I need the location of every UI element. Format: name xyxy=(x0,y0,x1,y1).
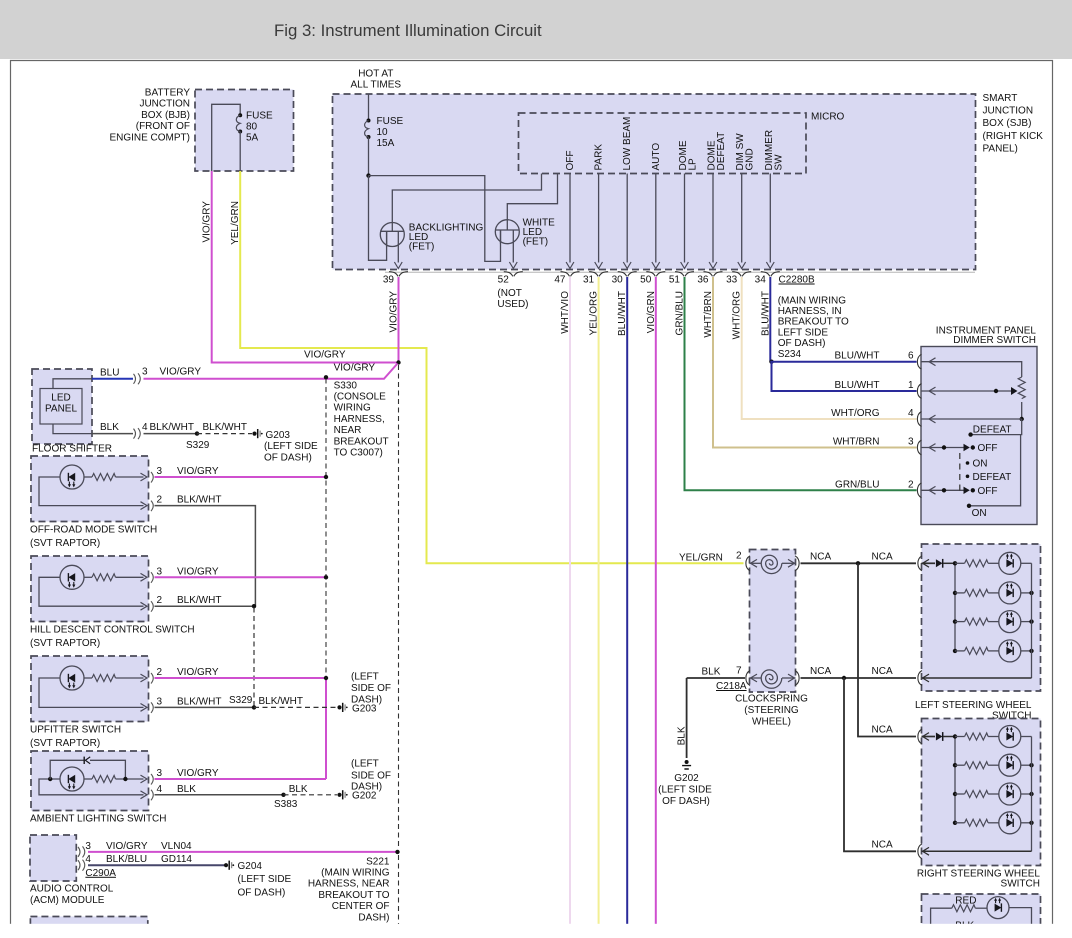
pin 51 xyxy=(675,272,694,277)
wire BLK xyxy=(92,433,133,435)
left steering wheel switch box xyxy=(922,544,1041,691)
svg-text:C218A: C218A xyxy=(716,681,747,692)
svg-text:GD114: GD114 xyxy=(161,854,192,865)
wire VIO/GRY floor shifter xyxy=(144,364,398,379)
svg-text:G204: G204 xyxy=(238,861,263,872)
svg-text:CLOCKSPRING: CLOCKSPRING xyxy=(735,694,808,705)
wire NCA to RSW input xyxy=(858,563,916,736)
LED row right steering wheel switch xyxy=(999,783,1021,805)
wire BLK ambient to S383 xyxy=(155,794,284,796)
wire internal hill descent control switch xyxy=(39,577,144,606)
svg-text:YEL/ORG: YEL/ORG xyxy=(589,291,600,336)
svg-text:SWITCH: SWITCH xyxy=(1001,879,1040,890)
svg-text:NCA: NCA xyxy=(872,839,893,850)
svg-text:S330: S330 xyxy=(334,380,358,391)
svg-text:BREAKOUT: BREAKOUT xyxy=(334,436,389,447)
svg-text:7: 7 xyxy=(736,666,742,677)
svg-text:C290A: C290A xyxy=(85,868,116,879)
connector clockspring pin7 xyxy=(746,671,750,686)
svg-text:(ACM) MODULE: (ACM) MODULE xyxy=(30,895,105,906)
bottom white clip strip xyxy=(0,924,1072,938)
svg-text:(STEERING: (STEERING xyxy=(744,705,799,716)
resistor row left steering wheel switch xyxy=(955,592,965,594)
off-road mode switch box xyxy=(31,456,149,522)
svg-text:WHEEL): WHEEL) xyxy=(752,716,791,727)
node S329 second xyxy=(252,705,256,709)
LED PANEL inner box xyxy=(40,389,82,425)
svg-text:NCA: NCA xyxy=(810,666,831,677)
svg-text:HARNESS,: HARNESS, xyxy=(334,414,385,425)
svg-text:C2280B: C2280B xyxy=(779,275,815,286)
wire BLK down to G202 xyxy=(686,678,688,758)
svg-text:DEFEAT: DEFEAT xyxy=(716,132,727,171)
wire BLK/WHT off-road xyxy=(155,506,256,607)
audio control (ACM) module box xyxy=(30,835,76,881)
svg-text:33: 33 xyxy=(726,275,738,286)
output row left steering wheel switch xyxy=(922,677,1032,679)
svg-text:FUSE: FUSE xyxy=(246,111,273,122)
svg-text:15A: 15A xyxy=(377,138,395,149)
svg-text:UPFITTER SWITCH: UPFITTER SWITCH xyxy=(30,725,121,736)
svg-text:(NOT: (NOT xyxy=(497,288,521,299)
LED upfitter switch xyxy=(60,666,84,690)
svg-text:(RIGHT KICK: (RIGHT KICK xyxy=(983,131,1044,142)
wire right rail to ON xyxy=(969,435,1021,506)
connector C2280B strip xyxy=(385,271,975,273)
svg-text:3: 3 xyxy=(142,367,148,378)
svg-text:OFF-ROAD MODE SWITCH: OFF-ROAD MODE SWITCH xyxy=(30,525,157,536)
svg-text:G203: G203 xyxy=(266,430,291,441)
svg-text:VIO/GRY: VIO/GRY xyxy=(304,350,346,361)
svg-text:BLK/WHT: BLK/WHT xyxy=(177,696,221,707)
LED row left steering wheel switch xyxy=(999,640,1021,662)
pin 36 xyxy=(704,272,723,277)
svg-text:WHT/ORG: WHT/ORG xyxy=(732,291,743,340)
wire YEL/GRN from BJB xyxy=(240,171,743,563)
svg-text:DEFEAT: DEFEAT xyxy=(973,472,1012,483)
svg-text:3: 3 xyxy=(908,437,914,448)
svg-text:3: 3 xyxy=(85,841,91,852)
svg-text:VIO/GRY: VIO/GRY xyxy=(177,566,219,577)
svg-text:HARNESS, NEAR: HARNESS, NEAR xyxy=(308,879,390,890)
svg-text:S329: S329 xyxy=(229,695,253,706)
LED row left steering wheel switch xyxy=(999,552,1021,574)
svg-text:LP: LP xyxy=(688,158,699,171)
diode left steering wheel switch xyxy=(936,559,943,567)
svg-text:SMART: SMART xyxy=(983,93,1018,104)
wire to DEFEAT contact xyxy=(971,419,1022,435)
battery junction box (BJB) xyxy=(195,90,294,172)
wire gate of backlighting FET xyxy=(392,174,541,232)
svg-text:LOW BEAM: LOW BEAM xyxy=(622,117,633,171)
svg-text:SIDE OF: SIDE OF xyxy=(351,683,391,694)
connector pins ambient xyxy=(141,775,148,783)
svg-text:2: 2 xyxy=(908,479,914,490)
pin 52 xyxy=(504,272,523,277)
svg-text:WHT/BRN: WHT/BRN xyxy=(703,291,714,338)
svg-text:3: 3 xyxy=(157,566,163,577)
transistor Q2 white LED FET xyxy=(495,220,519,244)
LED off-road mode switch xyxy=(60,465,84,489)
connector pin dimmer xyxy=(917,384,921,399)
svg-text:4: 4 xyxy=(157,784,163,795)
svg-text:34: 34 xyxy=(755,275,767,286)
svg-text:BLU/WHT: BLU/WHT xyxy=(835,380,880,391)
svg-text:BLK/WHT: BLK/WHT xyxy=(150,422,194,433)
ambient lighting switch box xyxy=(31,751,149,811)
wire BLK/WHT to S329 xyxy=(144,433,198,435)
svg-text:(LEFT SIDE: (LEFT SIDE xyxy=(658,785,712,796)
svg-text:VIO/GRY: VIO/GRY xyxy=(177,667,219,678)
LED row right steering wheel switch xyxy=(999,812,1021,834)
svg-text:OF DASH): OF DASH) xyxy=(662,796,710,807)
svg-text:BLK: BLK xyxy=(100,422,119,433)
wire VIO/GRY ambient xyxy=(155,778,327,780)
wire WHT/BRN pin36 xyxy=(713,277,917,448)
svg-text:CENTER OF: CENTER OF xyxy=(332,901,390,912)
svg-text:LEFT STEERING WHEEL: LEFT STEERING WHEEL xyxy=(915,700,1032,711)
svg-text:BATTERY: BATTERY xyxy=(145,88,191,99)
svg-text:VIO/GRN: VIO/GRN xyxy=(646,291,657,333)
wire BLK/WHT upfitter xyxy=(155,706,255,708)
resistor hill descent control switch xyxy=(92,574,116,581)
connector clockspring pin2 xyxy=(746,556,750,571)
node S221 xyxy=(395,850,399,854)
ground G203 second xyxy=(337,705,341,709)
svg-text:BLU: BLU xyxy=(100,368,119,379)
LED hill descent control switch xyxy=(60,565,84,589)
resistor upfitter switch xyxy=(92,675,116,682)
svg-text:31: 31 xyxy=(583,275,595,286)
pin 50 xyxy=(646,272,665,277)
resistor partial xyxy=(952,905,976,912)
wire into fuse 10 xyxy=(368,94,370,121)
dashed BLK to G202 xyxy=(284,794,338,796)
diode right steering wheel switch xyxy=(936,733,943,741)
svg-text:PANEL): PANEL) xyxy=(983,143,1018,154)
LED row right steering wheel switch xyxy=(999,726,1021,748)
node NCA junction 1 xyxy=(856,561,860,565)
svg-text:LEFT SIDE: LEFT SIDE xyxy=(778,327,829,338)
node S330 main junction xyxy=(396,360,400,364)
svg-text:OFF: OFF xyxy=(565,151,576,171)
svg-text:HOT AT: HOT AT xyxy=(358,69,393,80)
svg-text:ALL TIMES: ALL TIMES xyxy=(351,80,402,91)
ground G202 clockspring xyxy=(685,760,689,764)
resistor row left steering wheel switch xyxy=(955,562,965,564)
svg-text:(LEFT: (LEFT xyxy=(351,671,379,682)
svg-text:BOX (SJB): BOX (SJB) xyxy=(983,118,1032,129)
svg-text:VIO/GRY: VIO/GRY xyxy=(177,466,219,477)
dashed switch link xyxy=(959,453,961,492)
connector pin dimmer xyxy=(917,412,921,427)
wire BLU/WHT pin30 xyxy=(626,277,628,938)
connector pin dimmer xyxy=(917,354,921,369)
svg-text:SIDE OF: SIDE OF xyxy=(351,770,391,781)
svg-text:5A: 5A xyxy=(246,133,259,144)
pin 47 xyxy=(561,272,580,277)
svg-text:BLU/WHT: BLU/WHT xyxy=(617,291,628,336)
svg-text:Fig 3: Instrument Illumination: Fig 3: Instrument Illumination Circuit xyxy=(274,21,542,40)
switch pole pin3 xyxy=(921,447,965,449)
wire VIO/GRY link upfitter-ambient xyxy=(325,678,327,779)
dashed harness line x326 xyxy=(325,379,327,678)
fuse 80 5A xyxy=(238,113,242,117)
svg-text:OFF: OFF xyxy=(978,486,998,497)
header bar xyxy=(0,0,1072,59)
LED ambient xyxy=(60,767,84,791)
partial switch box (cut off) xyxy=(922,894,1041,938)
hill descent control switch box xyxy=(31,556,149,622)
svg-text:(LEFT: (LEFT xyxy=(351,759,379,770)
svg-text:47: 47 xyxy=(554,275,566,286)
svg-text:NCA: NCA xyxy=(872,551,893,562)
right rail left steering wheel switch xyxy=(1031,563,1033,678)
svg-text:(SVT RAPTOR): (SVT RAPTOR) xyxy=(30,538,100,549)
svg-text:50: 50 xyxy=(640,275,652,286)
wire VIO/GRY upfitter xyxy=(155,677,327,679)
svg-text:MICRO: MICRO xyxy=(811,112,845,123)
photo feedback branch xyxy=(48,777,52,781)
node S234 xyxy=(769,360,773,364)
wire NCA to RSW output row xyxy=(844,678,916,851)
connector input right steering wheel switch xyxy=(918,729,922,744)
pin 33 xyxy=(732,272,751,277)
connector input left steering wheel switch xyxy=(918,556,922,571)
wire BLU/WHT to dimmer pin6 xyxy=(770,361,916,363)
right rail right steering wheel switch xyxy=(1031,737,1033,852)
svg-text:2: 2 xyxy=(157,495,163,506)
svg-text:1: 1 xyxy=(908,380,914,391)
wire YEL/ORG pin31 xyxy=(598,277,600,938)
svg-text:WHT/VIO: WHT/VIO xyxy=(560,291,571,334)
ground G203 xyxy=(252,432,256,436)
svg-text:BLK/WHT: BLK/WHT xyxy=(177,495,221,506)
svg-text:BLU/WHT: BLU/WHT xyxy=(835,351,880,362)
wire BJB internal xyxy=(212,104,241,171)
resistor row right steering wheel switch xyxy=(955,764,965,766)
svg-text:VIO/GRY: VIO/GRY xyxy=(106,841,148,852)
resistor row left steering wheel switch xyxy=(955,650,965,652)
svg-text:GND: GND xyxy=(745,148,756,170)
connector pins upfitter switch xyxy=(141,674,148,682)
wire dimmer pin1 wiper xyxy=(921,390,1012,392)
pin 34 xyxy=(761,272,780,277)
svg-text:LED: LED xyxy=(51,393,70,404)
partial module box (cut off) xyxy=(30,917,147,938)
svg-text:(FET): (FET) xyxy=(523,237,549,248)
instrument panel dimmer switch box xyxy=(921,347,1037,525)
svg-text:VIO/GRY: VIO/GRY xyxy=(334,363,376,374)
svg-text:AUTO: AUTO xyxy=(651,143,662,171)
svg-text:YEL/GRN: YEL/GRN xyxy=(230,201,241,245)
svg-text:30: 30 xyxy=(612,275,624,286)
svg-text:SW: SW xyxy=(773,154,784,171)
svg-text:2: 2 xyxy=(736,550,742,561)
svg-text:WHT/BRN: WHT/BRN xyxy=(833,437,880,448)
svg-text:51: 51 xyxy=(669,275,681,286)
wire internal ambient xyxy=(39,779,144,795)
resistor dimmer potentiometer xyxy=(1018,377,1025,399)
node fuse junction xyxy=(366,173,370,177)
svg-text:BREAKOUT TO: BREAKOUT TO xyxy=(318,890,389,901)
svg-text:DASH): DASH) xyxy=(358,912,389,923)
svg-text:FUSE: FUSE xyxy=(377,116,404,127)
svg-text:ENGINE COMPT): ENGINE COMPT) xyxy=(109,132,190,143)
svg-text:GRN/BLU: GRN/BLU xyxy=(675,291,686,335)
clockspring box xyxy=(750,550,796,693)
svg-text:3: 3 xyxy=(157,768,163,779)
wire WHT/VIO pin47 xyxy=(569,277,571,938)
svg-text:JUNCTION: JUNCTION xyxy=(983,106,1034,117)
wire VIO/GRY off-road xyxy=(155,476,327,478)
resistor row left steering wheel switch xyxy=(955,621,965,623)
pin 39 xyxy=(389,272,408,277)
svg-text:BLK/WHT: BLK/WHT xyxy=(259,696,303,707)
wire gate of white LED FET xyxy=(507,174,557,231)
node resistor bottom xyxy=(1020,417,1024,421)
svg-text:OF DASH): OF DASH) xyxy=(238,888,286,899)
LED row left steering wheel switch xyxy=(999,582,1021,604)
svg-text:2: 2 xyxy=(157,595,163,606)
bus left steering wheel switch xyxy=(954,563,956,651)
wire internal floor shifter xyxy=(53,379,92,389)
pin 31 xyxy=(589,272,608,277)
svg-text:DASH): DASH) xyxy=(351,694,382,705)
svg-text:NEAR: NEAR xyxy=(334,425,362,436)
node S329 xyxy=(195,431,199,435)
svg-text:S221: S221 xyxy=(366,856,390,867)
svg-text:G202: G202 xyxy=(674,773,699,784)
wire BLU/WHT to dimmer pin1 xyxy=(772,362,917,391)
wire VLN04 xyxy=(88,851,398,853)
clockspring top coil xyxy=(750,562,762,564)
svg-text:3: 3 xyxy=(157,696,163,707)
svg-text:4: 4 xyxy=(908,408,914,419)
svg-text:BLK: BLK xyxy=(702,667,721,678)
svg-text:VIO/GRY: VIO/GRY xyxy=(389,291,400,333)
svg-text:DASH): DASH) xyxy=(351,782,382,793)
svg-text:VIO/GRY: VIO/GRY xyxy=(177,768,219,779)
svg-text:S383: S383 xyxy=(274,799,298,810)
connector ACM pins xyxy=(78,846,85,857)
svg-text:WHT/ORG: WHT/ORG xyxy=(831,408,880,419)
svg-text:36: 36 xyxy=(697,275,709,286)
ground G204 xyxy=(224,863,228,867)
svg-text:TO C3007): TO C3007) xyxy=(334,448,383,459)
svg-text:S329: S329 xyxy=(186,440,210,451)
svg-text:PARK: PARK xyxy=(594,144,605,171)
wire dimmer pin6 internal to resistor xyxy=(921,362,1022,377)
wire WHT/ORG pin33 xyxy=(742,277,917,419)
svg-text:BLK: BLK xyxy=(289,784,308,795)
wire source feed to backlighting FET xyxy=(369,176,387,261)
svg-text:(SVT RAPTOR): (SVT RAPTOR) xyxy=(30,738,100,749)
clockspring bottom coil xyxy=(750,677,762,679)
svg-text:BLK/WHT: BLK/WHT xyxy=(203,422,247,433)
connector pins off-road mode switch xyxy=(141,473,148,481)
micro box xyxy=(519,113,807,174)
transistor Q1 backlighting LED FET xyxy=(380,223,404,247)
connector pins hill descent control switch xyxy=(141,573,148,581)
svg-text:S234: S234 xyxy=(778,349,802,360)
svg-text:AMBIENT LIGHTING SWITCH: AMBIENT LIGHTING SWITCH xyxy=(30,814,167,825)
pin 30 xyxy=(618,272,637,277)
svg-text:(MAIN WIRING: (MAIN WIRING xyxy=(321,868,390,879)
wire VIO/GRN pin50 xyxy=(655,277,657,938)
svg-text:(LEFT SIDE: (LEFT SIDE xyxy=(264,441,318,452)
wire BLK/WHT hill descent xyxy=(155,605,255,607)
svg-text:WIRING: WIRING xyxy=(334,403,371,414)
svg-text:4: 4 xyxy=(85,854,91,865)
wire GD114 BLK/BLU xyxy=(88,864,224,866)
svg-text:FLOOR SHIFTER: FLOOR SHIFTER xyxy=(32,444,112,455)
resistor off-road mode switch xyxy=(92,474,116,481)
wire BLU xyxy=(92,378,133,380)
bus right steering wheel switch xyxy=(954,737,956,823)
svg-text:39: 39 xyxy=(383,275,395,286)
svg-text:BLK/BLU: BLK/BLU xyxy=(106,854,147,865)
svg-text:10: 10 xyxy=(377,127,389,138)
svg-text:ON: ON xyxy=(973,459,988,470)
svg-text:4: 4 xyxy=(142,422,148,433)
svg-text:BLU/WHT: BLU/WHT xyxy=(760,291,771,336)
svg-text:DIMMER SWITCH: DIMMER SWITCH xyxy=(953,335,1036,346)
svg-text:HARNESS, IN: HARNESS, IN xyxy=(778,306,842,317)
svg-text:BOX (BJB): BOX (BJB) xyxy=(141,110,190,121)
svg-text:OFF: OFF xyxy=(978,443,998,454)
svg-text:(MAIN WIRING: (MAIN WIRING xyxy=(778,295,847,306)
svg-text:NCA: NCA xyxy=(810,551,831,562)
node S330 splice xyxy=(324,375,328,379)
output row right steering wheel switch xyxy=(922,850,1032,852)
svg-text:80: 80 xyxy=(246,122,258,133)
svg-text:JUNCTION: JUNCTION xyxy=(139,99,190,110)
resistor row right steering wheel switch xyxy=(955,822,965,824)
smart junction box (SJB) xyxy=(333,94,976,270)
floor shifter box xyxy=(32,369,92,444)
LED row left steering wheel switch xyxy=(999,611,1021,633)
right steering wheel switch box xyxy=(922,719,1041,866)
switch pole pin2 xyxy=(921,489,965,491)
svg-text:DEFEAT: DEFEAT xyxy=(973,424,1012,435)
svg-text:(FET): (FET) xyxy=(409,241,435,252)
wire source feed to white LED FET xyxy=(369,176,501,262)
svg-text:6: 6 xyxy=(908,351,914,362)
svg-text:VLN04: VLN04 xyxy=(161,841,192,852)
svg-text:BLK/WHT: BLK/WHT xyxy=(177,595,221,606)
svg-text:VIO/GRY: VIO/GRY xyxy=(160,367,202,378)
svg-text:VIO/GRY: VIO/GRY xyxy=(202,201,213,243)
node S383 xyxy=(281,793,285,797)
connector pin dimmer xyxy=(917,440,921,455)
connector floor shifter pin4 xyxy=(134,428,141,439)
svg-text:NCA: NCA xyxy=(872,666,893,677)
svg-text:52: 52 xyxy=(498,275,510,286)
wire internal off-road mode switch xyxy=(39,477,144,506)
wire internal upfitter switch xyxy=(39,678,144,707)
svg-text:USED): USED) xyxy=(497,299,528,310)
wire BLU/WHT pin34 xyxy=(769,277,771,362)
svg-text:PANEL: PANEL xyxy=(45,404,77,415)
wire VIO/GRY hill descent xyxy=(155,576,327,578)
connector floor shifter pin3 xyxy=(134,373,141,384)
svg-text:OF DASH): OF DASH) xyxy=(264,453,312,464)
svg-text:YEL/GRN: YEL/GRN xyxy=(679,552,723,563)
connector pin dimmer xyxy=(917,483,921,498)
svg-text:GRN/BLU: GRN/BLU xyxy=(835,479,879,490)
fuse 10 15A xyxy=(367,119,371,123)
